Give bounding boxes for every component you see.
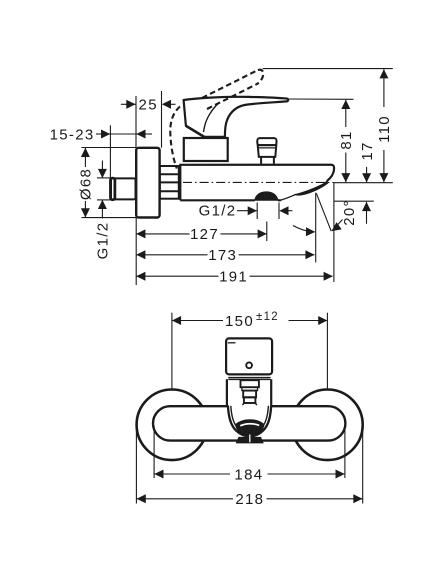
handle screw dot (246, 362, 252, 368)
dimension 218 (137, 491, 363, 508)
spout lip (filled) (295, 181, 328, 195)
left escutcheon circle (137, 390, 208, 461)
right S-union center extension (326, 313, 328, 389)
spout bowl outer (228, 405, 271, 436)
extension lines 184 (153, 426, 155, 478)
svg-text:25: 25 (139, 97, 158, 114)
body bottom reference (334, 200, 374, 202)
spout mouth (filled) (236, 420, 264, 436)
dimension 191 (136, 269, 333, 286)
cartridge housing (227, 379, 271, 405)
extension line lever tip (288, 98, 354, 100)
left S-union center extension (171, 313, 173, 389)
dimension 15-23 (50, 126, 152, 143)
cartridge neck rings (241, 380, 259, 405)
outlet center extension (266, 222, 268, 242)
svg-text:150: 150 (225, 313, 254, 330)
dimension G1/2 thread left (95, 161, 112, 260)
escutcheon (side view) (136, 148, 159, 218)
extension line top (raised lever) (263, 68, 393, 70)
centerline (183, 181, 334, 183)
handle (side view) (184, 97, 289, 137)
bottom outlet dome G1/2 (255, 192, 278, 200)
union nut knurled (160, 166, 179, 199)
dimension 110 (376, 69, 393, 182)
escutcheon face extension line (135, 96, 137, 148)
dimension 17 (359, 141, 376, 182)
S-union nipple (110, 178, 135, 200)
wall line (109, 125, 111, 178)
svg-text:±12: ±12 (256, 311, 279, 323)
dimension 127 (136, 226, 267, 243)
svg-text:173: 173 (208, 247, 237, 264)
svg-text:17: 17 (359, 141, 376, 160)
dimension 150 +/-12 (172, 311, 328, 330)
foot center split (249, 435, 251, 443)
dimension 184 (154, 466, 344, 483)
cartridge collar (184, 138, 228, 161)
svg-text:Ø68: Ø68 (78, 168, 95, 200)
spout outer extension line (333, 182, 335, 282)
svg-text:20°: 20° (341, 199, 358, 226)
dimension 25 (121, 97, 176, 114)
spout bowl inner (231, 406, 269, 434)
svg-text:184: 184 (234, 466, 263, 483)
angle arc with arrow (293, 226, 315, 232)
svg-text:127: 127 (190, 226, 219, 243)
body capsule (153, 406, 345, 440)
extension lines 218 (135, 427, 137, 504)
handle raised (dashed) (170, 70, 263, 169)
extension line handle front (161, 91, 163, 148)
dimension O68 (78, 148, 137, 218)
spout underside (281, 194, 297, 200)
svg-text:218: 218 (235, 491, 264, 508)
bowl foot (filled) (236, 437, 263, 443)
handle (front view) (226, 338, 272, 379)
dimension 173 (136, 247, 314, 264)
svg-text:81: 81 (338, 130, 355, 149)
right escutcheon circle (292, 390, 363, 461)
spout angle 20 deg line (316, 193, 331, 231)
svg-text:15-23: 15-23 (50, 126, 95, 143)
svg-text:G1/2: G1/2 (95, 222, 112, 260)
mouth highlight (240, 424, 259, 426)
dimension G1/2 outlet (199, 202, 293, 219)
centerline extension right (334, 182, 393, 184)
dimension 81 (338, 100, 355, 183)
svg-text:G1/2: G1/2 (199, 202, 237, 219)
mixer body (180, 164, 334, 201)
spout tip vertical reference (315, 193, 317, 263)
svg-text:110: 110 (376, 115, 393, 143)
leader 20 deg (332, 220, 343, 231)
svg-text:191: 191 (219, 269, 248, 286)
diverter knob (257, 138, 276, 164)
